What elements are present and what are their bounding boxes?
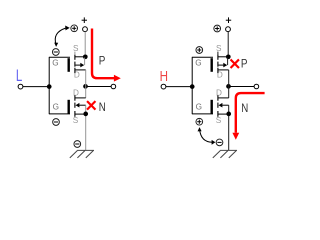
charge plus on P gate (right) bbox=[196, 47, 203, 54]
N-MOSFET gate electrode bar bbox=[68, 100, 70, 114]
P-MOSFET gate lead (top edge of G box) bbox=[49, 56, 70, 58]
svg-text:G: G bbox=[52, 58, 58, 67]
source stub bbox=[218, 56, 228, 58]
P-MOSFET gate lead (top edge of G box) bbox=[192, 56, 213, 58]
svg-text:L: L bbox=[16, 67, 22, 85]
charge plus at supply (right) bbox=[214, 25, 221, 32]
wire ground lead bbox=[228, 116, 230, 150]
svg-text:P: P bbox=[241, 57, 248, 70]
svg-text:S: S bbox=[216, 116, 222, 125]
charge minus near ground (right) bbox=[216, 139, 223, 146]
drain stub and lead bbox=[75, 69, 86, 71]
wire ground lead bbox=[85, 116, 87, 150]
wire input bbox=[23, 86, 49, 88]
power supply + terminal bbox=[82, 17, 87, 23]
channel segments bbox=[74, 95, 76, 100]
drain stub and lead bbox=[228, 86, 230, 98]
terminal circle V+ bbox=[226, 27, 231, 32]
N-MOSFET gate electrode bar bbox=[211, 100, 213, 114]
channel segments bbox=[74, 52, 76, 55]
svg-text:N: N bbox=[99, 101, 106, 114]
power supply + terminal bbox=[226, 17, 231, 23]
arrow: charge attraction (gate minus to supply plus) bbox=[55, 28, 65, 44]
channel segments bbox=[217, 52, 219, 55]
ground bbox=[213, 150, 237, 158]
source stub bbox=[75, 113, 86, 115]
source stub bbox=[75, 56, 85, 58]
ground bbox=[70, 150, 94, 158]
current arrow through N transistor (red) bbox=[236, 93, 265, 133]
terminal circle V+ bbox=[83, 27, 88, 32]
junction: source node bbox=[83, 54, 88, 59]
red X over N transistor (left, off) bbox=[88, 102, 95, 109]
svg-text:S: S bbox=[216, 44, 222, 53]
terminal: input L bbox=[18, 84, 23, 89]
wire output bbox=[86, 86, 112, 88]
N-MOSFET gate lead (bottom edge of G box) bbox=[192, 113, 213, 115]
charge plus at supply (left) bbox=[71, 25, 78, 32]
junction: output node bbox=[226, 84, 231, 89]
junction: output node bbox=[83, 84, 88, 89]
arrow: charge attraction (gate plus to ground minus) bbox=[200, 129, 213, 142]
svg-text:N: N bbox=[241, 102, 248, 115]
svg-text:S: S bbox=[73, 44, 79, 53]
P-MOSFET gate electrode bar bbox=[211, 58, 213, 72]
drain stub and lead bbox=[218, 69, 229, 71]
N-MOSFET gate lead (bottom edge of G box) bbox=[49, 113, 70, 115]
svg-text:D: D bbox=[216, 89, 222, 98]
junction: source node bbox=[83, 112, 88, 117]
junction: source node bbox=[226, 112, 231, 117]
drain stub and lead bbox=[85, 86, 87, 98]
svg-text:S: S bbox=[73, 116, 79, 125]
wire supply lead bbox=[84, 32, 86, 56]
svg-text:D: D bbox=[73, 89, 79, 98]
channel segments bbox=[217, 95, 219, 100]
charge minus on N gate (left) bbox=[53, 119, 60, 126]
terminal: output bbox=[111, 84, 116, 89]
wire gate bus bbox=[191, 57, 193, 114]
svg-text:G: G bbox=[53, 103, 59, 112]
svg-text:H: H bbox=[160, 68, 168, 85]
red X over P transistor (right, off) bbox=[231, 60, 238, 67]
wire gate bus bbox=[48, 57, 50, 114]
wire output bbox=[229, 86, 255, 88]
P-MOSFET gate electrode bar bbox=[68, 58, 70, 72]
junction: source node bbox=[226, 54, 231, 59]
svg-text:P: P bbox=[99, 55, 106, 68]
charge minus near ground (left) bbox=[74, 141, 81, 148]
junction: gate bus bbox=[190, 84, 195, 89]
bulk lead with arrow (to source) bbox=[76, 103, 80, 108]
charge plus on N gate (right) bbox=[196, 118, 203, 125]
terminal: output bbox=[254, 84, 259, 89]
svg-text:G: G bbox=[196, 103, 202, 112]
terminal: input H bbox=[161, 84, 166, 89]
current arrow through P transistor (red) bbox=[92, 29, 114, 79]
bulk lead with arrow (to source) bbox=[219, 103, 223, 108]
wire input bbox=[166, 86, 192, 88]
source stub bbox=[218, 113, 229, 115]
charge minus on P gate (left) bbox=[52, 49, 59, 56]
svg-text:G: G bbox=[195, 58, 201, 67]
bulk lead with arrow (to source) bbox=[219, 64, 224, 66]
junction: gate bus bbox=[47, 84, 52, 89]
bulk lead with arrow (to source) bbox=[76, 64, 81, 66]
wire supply lead bbox=[227, 32, 229, 56]
